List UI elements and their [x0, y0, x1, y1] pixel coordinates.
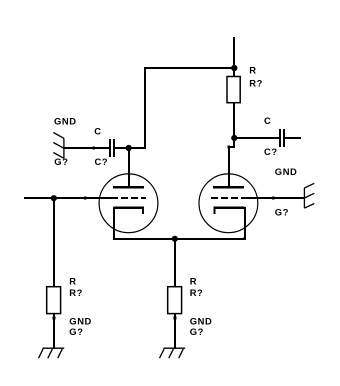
wire: plate resistor bottom pin	[233, 103, 235, 138]
svg-text:C?: C?	[95, 156, 109, 167]
ground (left)	[39, 348, 65, 358]
svg-text:G?: G?	[54, 156, 68, 167]
wire: left terminal to cap	[64, 147, 93, 149]
U1 cathode right hook	[142, 206, 144, 214]
connector G? (left terminal)	[53, 133, 64, 159]
U1 grid dashes	[111, 197, 118, 199]
svg-text:G?: G?	[275, 207, 289, 218]
wire: U1 cathode leg	[113, 207, 115, 240]
node: right plate junction dot	[231, 135, 237, 141]
wire: U2 grid lead to right terminal	[245, 197, 305, 199]
wire: common cathode bus	[113, 238, 246, 240]
svg-text:GND: GND	[69, 315, 92, 326]
svg-text:R?: R?	[249, 78, 263, 89]
svg-text:GND: GND	[190, 315, 213, 326]
wire: junction to right cap	[233, 137, 279, 139]
wire: plate resistor top pin	[233, 67, 235, 76]
wire: left grid resistor drop	[53, 197, 55, 286]
pin: U2 plate pin square	[227, 146, 230, 149]
U2 cathode bar	[213, 206, 244, 209]
connector G? (right terminal)	[304, 183, 314, 208]
pin: U2 grid pin square	[272, 197, 275, 200]
resistor R (left grid resistor) body	[47, 287, 61, 314]
wire: tail resistor drop	[174, 238, 176, 286]
svg-text:R?: R?	[190, 287, 204, 298]
wire: left input stub	[24, 197, 86, 199]
svg-text:R?: R?	[69, 287, 83, 298]
svg-text:C: C	[264, 115, 271, 126]
wire: U2 cathode leg	[244, 207, 246, 240]
wire: left cap left pin	[93, 147, 109, 149]
resistor R (plate resistor) body	[227, 77, 240, 103]
node: input junction dot	[51, 195, 57, 201]
pin: tail resistor bottom pin square	[174, 317, 177, 320]
svg-text:R: R	[190, 276, 197, 287]
pin: U1 grid pin square	[84, 197, 87, 200]
svg-text:R: R	[249, 64, 256, 75]
svg-text:C: C	[94, 125, 101, 136]
wire: jog left to right plate pin	[228, 146, 235, 148]
svg-text:GND: GND	[275, 166, 298, 177]
svg-text:R: R	[69, 276, 76, 287]
node: left plate junction dot	[126, 145, 132, 151]
wire: top horizontal run	[144, 67, 236, 69]
wire: U1 grid lead	[85, 197, 112, 199]
node: B+ junction dot	[231, 65, 237, 71]
U2 cathode left hook	[213, 206, 215, 214]
triode U2 (right tube) envelope	[199, 174, 258, 233]
U1 plate bar	[113, 186, 144, 189]
wire: left tube plate lead	[128, 147, 130, 188]
wire: jog into left plate node	[128, 147, 146, 149]
capacitor C (left) plates	[109, 139, 111, 157]
wire: left resistor to ground	[53, 313, 55, 349]
svg-text:G?: G?	[69, 326, 83, 337]
svg-text:GND: GND	[54, 115, 77, 126]
wire: B+ top stub	[233, 37, 235, 68]
wire: left vertical drop from top wire	[144, 67, 146, 149]
pin: left resistor bottom pin square	[53, 317, 56, 320]
svg-text:G?: G?	[190, 326, 204, 337]
U2 grid dashes	[211, 197, 218, 199]
svg-text:C?: C?	[264, 146, 278, 157]
U2 plate bar	[213, 186, 244, 189]
triode U1 (left tube) envelope	[99, 174, 158, 233]
wire: left cap right pin	[115, 147, 129, 149]
capacitor C (right) plates	[279, 129, 281, 147]
pin: left cap pin end square	[92, 147, 95, 150]
ground (middle)	[160, 348, 186, 358]
U1 cathode bar	[114, 206, 145, 209]
resistor R (tail resistor) body	[168, 287, 182, 314]
wire: right cap output stub	[285, 137, 301, 139]
wire: jog down from right plate junction	[233, 137, 235, 148]
pin: U2 cathode pin square	[243, 237, 246, 240]
node: cathode bus junction dot	[172, 236, 178, 242]
wire: U2 plate lead	[228, 146, 230, 188]
wire: tail resistor to ground	[174, 313, 176, 349]
